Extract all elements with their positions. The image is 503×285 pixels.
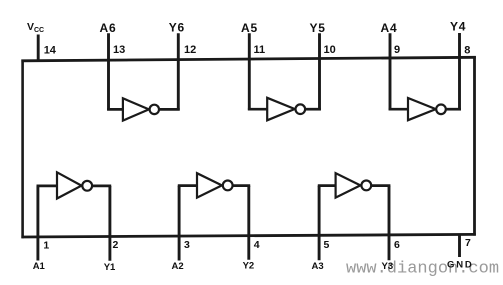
inverter U1C (336, 173, 361, 197)
svg-text:A5: A5 (241, 21, 258, 35)
wire A3 lead pin 5 (318, 186, 321, 261)
svg-text:11: 11 (254, 44, 266, 56)
wire Y1 lead pin 2 (108, 186, 111, 261)
wire A4 riser pin 9 (389, 33, 392, 110)
svg-text:Y5: Y5 (310, 21, 326, 35)
svg-text:12: 12 (184, 44, 196, 56)
wire A5 riser pin 11 (248, 33, 251, 110)
svg-text:A3: A3 (312, 261, 324, 272)
wire Y3 lead pin 6 (388, 186, 391, 261)
wire Y6 riser pin 12 (177, 33, 180, 110)
svg-text:GND: GND (447, 260, 474, 271)
wire inverter U1E output (305, 108, 321, 111)
inverter U1B bubble (223, 181, 233, 191)
svg-text:9: 9 (394, 44, 400, 56)
svg-text:A1: A1 (33, 261, 46, 272)
svg-text:1: 1 (43, 239, 49, 251)
wire A2 lead pin 3 (178, 186, 181, 261)
wire GND lead pin 7 (458, 235, 461, 257)
svg-text:CC: CC (34, 27, 44, 34)
wire Y5 riser pin 10 (318, 33, 321, 110)
wire inverter U1F output (159, 108, 180, 111)
wire A1 lead pin 1 (36, 186, 39, 261)
svg-text:A6: A6 (100, 21, 117, 35)
inverter U1B (197, 173, 222, 197)
svg-text:4: 4 (254, 239, 260, 251)
Vcc pin 14 lead (37, 35, 40, 62)
IC outline right edge (473, 56, 476, 236)
wire inverter U1D output (446, 108, 461, 111)
wire A6 riser pin 13 (107, 33, 110, 110)
inverter U1E (267, 98, 295, 121)
wire inverter U1A input (37, 185, 59, 188)
inverter U1A bubble (82, 181, 92, 191)
svg-text:A2: A2 (172, 261, 184, 272)
inverter U1F (123, 98, 149, 120)
wire inverter U1A output (92, 185, 111, 188)
svg-text:Y2: Y2 (243, 261, 255, 272)
svg-text:Y3: Y3 (382, 261, 394, 272)
IC outline top rail (21, 57, 475, 61)
svg-text:13: 13 (113, 44, 125, 56)
svg-text:3: 3 (184, 239, 190, 251)
wire inverter U1B output (233, 184, 251, 187)
wire inverter U1C output (371, 184, 390, 187)
wire Y2 lead pin 4 (247, 186, 250, 260)
wire inverter U1C input (318, 184, 337, 187)
svg-text:8: 8 (464, 45, 470, 57)
wire inverter U1B input (178, 184, 198, 187)
IC outline left edge (21, 60, 24, 239)
inverter U1E bubble (296, 104, 306, 114)
svg-text:Y6: Y6 (169, 21, 185, 35)
inverter U1A (57, 172, 82, 198)
svg-text:14: 14 (44, 45, 57, 57)
svg-text:Y1: Y1 (104, 262, 116, 273)
svg-text:2: 2 (113, 239, 119, 251)
wire Y4 riser pin 8 (458, 33, 461, 110)
IC outline bottom rail (21, 234, 475, 237)
inverter U1D bubble (436, 105, 446, 115)
svg-text:7: 7 (465, 237, 471, 249)
svg-text:V: V (27, 21, 34, 33)
wire inverter U1E input (248, 108, 268, 111)
inverter U1F bubble (150, 105, 159, 114)
svg-text:A4: A4 (381, 21, 398, 35)
svg-text:6: 6 (394, 239, 400, 251)
svg-text:10: 10 (324, 44, 336, 56)
inverter U1D (408, 98, 436, 120)
svg-text:www.diangon.com: www.diangon.com (346, 260, 499, 279)
wire inverter U1D input (389, 108, 409, 111)
svg-text:Y4: Y4 (450, 20, 466, 34)
wire inverter U1F input (107, 108, 124, 111)
svg-text:5: 5 (324, 239, 330, 251)
inverter U1C bubble (361, 181, 371, 191)
